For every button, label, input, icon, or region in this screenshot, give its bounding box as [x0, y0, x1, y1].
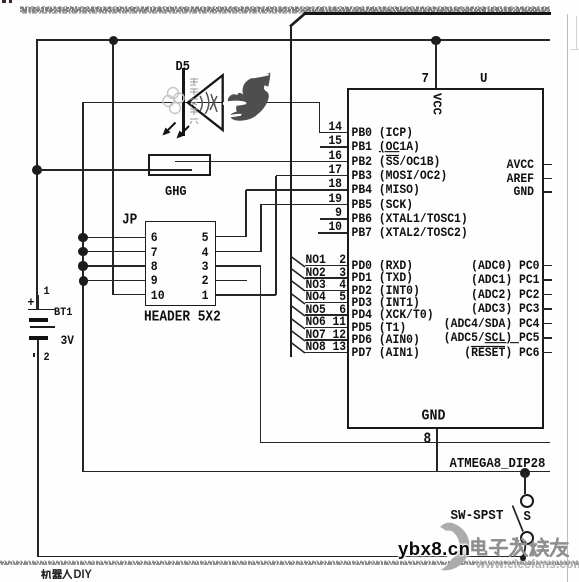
- pin label PC6: [0, 347, 540, 360]
- net flag NO4 underline / PD stub: [305, 302, 347, 304]
- pin number 4 for NO3: [0, 279, 346, 292]
- pin number 4 header right: [0, 246, 209, 261]
- wire vertical x=113 from top rail to header pin10: [112, 40, 114, 295]
- pin number 2 for NO1: [0, 254, 346, 267]
- pin label PD0: [352, 260, 414, 273]
- junction dot top rail x=113: [109, 36, 118, 45]
- label GHG: [165, 184, 187, 200]
- junction dot switch-bottom rail: [520, 555, 526, 561]
- net flag NO8 diagonal: [289, 341, 309, 355]
- pin stub PC3 right: [542, 308, 552, 310]
- pin label PD1: [352, 272, 414, 285]
- pin label PB0: [352, 127, 414, 140]
- wire header pin2 stub: [216, 280, 248, 282]
- wire pin9 stub PB6: [320, 218, 347, 220]
- net flag NO5 diagonal: [289, 304, 309, 318]
- pin label PB1: [352, 141, 420, 154]
- net flag NO3 underline / PD stub: [305, 290, 347, 292]
- pin label PB4: [352, 184, 420, 197]
- junction dot row9: [79, 276, 88, 285]
- wire switch upper lead: [524, 473, 526, 494]
- pin stub AVCC right: [542, 164, 552, 166]
- pin label PD3: [352, 297, 420, 310]
- pin label PB7: [352, 227, 468, 240]
- LED D5 emission arrow 2: [172, 122, 194, 144]
- pin label AVCC: [0, 159, 534, 172]
- caption jiqiren DIY (robot DIY): [41, 569, 51, 579]
- pin number 19: [0, 193, 342, 206]
- pin number 3 header right: [0, 260, 209, 275]
- wire VCC top rail y=40: [36, 39, 550, 41]
- pin label PB2: [352, 156, 441, 169]
- junction dot top rail VCC pin7: [431, 36, 440, 45]
- switch SW-SPST junction dot: [520, 468, 530, 478]
- label battery pin 1: [44, 286, 50, 298]
- page bottom speckled border: [0, 558, 579, 568]
- pin label PC3: [0, 303, 540, 316]
- net flag NO7 diagonal: [289, 329, 309, 343]
- pin number 18: [0, 178, 342, 191]
- wire header pin3 row: [216, 265, 262, 267]
- pin stub PC1 right: [542, 279, 552, 281]
- net bus NO thick vertical x=291: [290, 25, 293, 357]
- pin label PC5: [0, 332, 540, 345]
- connector JP header body rectangle: [145, 221, 216, 307]
- watermark swirl crescent: [436, 522, 476, 576]
- resistor GHG body rectangle: [148, 154, 211, 177]
- net label NO8: [306, 341, 326, 354]
- pin number 7 VCC: [422, 71, 429, 87]
- pin number 9 header left: [151, 274, 158, 289]
- wire header pin1 row: [216, 294, 277, 296]
- pin stub PC4 right: [542, 323, 552, 325]
- wire LED anode row y=102.6: [83, 102, 320, 104]
- pin number 2 header right: [0, 274, 209, 289]
- watermark strokes inside LED triangle: [196, 88, 222, 118]
- switch SW-SPST lever: [509, 503, 527, 534]
- pin label PB6: [352, 213, 468, 226]
- wire bottom rail y=556.8: [37, 556, 523, 558]
- wire pin18 stub PB4: [246, 189, 347, 191]
- pin number 14: [0, 121, 342, 134]
- wire pin17 drop to header pin1: [275, 176, 277, 295]
- watermark text www.elecfans.com: [476, 557, 579, 571]
- pin label PC1: [0, 274, 540, 287]
- battery BT1 plate 4 (short thick): [29, 336, 49, 340]
- pin label PD5: [352, 322, 407, 335]
- net flag NO6 underline / PD stub: [305, 327, 347, 329]
- wire VCC pin7 drop: [435, 40, 437, 88]
- wire left rail upper (x=37): [36, 40, 38, 310]
- battery BT1 plate 2 (short thick): [29, 318, 49, 322]
- pin number 11 for NO6: [0, 316, 346, 329]
- pin number 1 header right: [0, 289, 209, 304]
- junction dot row8: [78, 261, 87, 270]
- pin label PB5: [352, 199, 414, 212]
- net label NO6: [306, 316, 326, 329]
- pin label PC0: [0, 260, 540, 273]
- net flag NO3 diagonal: [289, 279, 309, 293]
- wire GND pin8 drop: [436, 427, 438, 472]
- label BT1: [54, 307, 72, 319]
- scan mark top-left 2: [9, 0, 13, 3]
- scan mark top-left 1: [2, 0, 6, 3]
- label GND bottom: [422, 407, 446, 424]
- net label NO3: [306, 279, 326, 292]
- pin label PD2: [352, 285, 420, 298]
- wire resistor left lead: [37, 169, 192, 171]
- wire pin10 stub PB7: [318, 232, 347, 234]
- label S: [524, 509, 531, 525]
- pin label AREF: [0, 173, 534, 186]
- pin number 3 for NO2: [0, 267, 346, 280]
- wire left rail lower (battery to bottom): [37, 338, 39, 557]
- pin number 10: [0, 221, 342, 234]
- pin stub PC0 right: [542, 265, 552, 267]
- net flag NO7 underline / PD stub: [305, 339, 347, 341]
- pin stub AREF right: [542, 178, 552, 180]
- pin number 8 GND: [424, 430, 432, 447]
- net top thick line y=13.8: [304, 12, 551, 15]
- switch SW-SPST bottom contact circle: [520, 531, 534, 545]
- label battery pin 2: [44, 352, 50, 364]
- wire vertical x=83 (LED return bus): [82, 102, 84, 472]
- pin label PD7: [352, 347, 420, 360]
- watermark text ybx8.cn: [398, 538, 470, 560]
- page right faint border line: [567, 14, 568, 582]
- pin number 9: [0, 207, 342, 220]
- label battery plus: [28, 296, 35, 311]
- battery BT1 plate 3 (long): [30, 326, 55, 328]
- pin number 12 for NO7: [0, 329, 346, 342]
- junction dot resistor-left rail: [32, 165, 42, 175]
- pin stub PC6 right: [542, 352, 552, 354]
- wire header pin4 row: [216, 251, 262, 253]
- label JP: [122, 211, 137, 228]
- pin stub PC2 right: [542, 294, 552, 296]
- pin label PD6: [352, 334, 420, 347]
- pin number 6 header left: [151, 231, 158, 246]
- pin number 13 for NO8: [0, 341, 346, 354]
- wire pin15 stub PB1: [320, 146, 347, 148]
- net label NO5: [306, 304, 326, 317]
- net label NO7: [306, 329, 326, 342]
- net flag NO6 diagonal: [289, 317, 309, 331]
- wire net row y=442.6: [261, 442, 550, 444]
- wire battery top lead: [37, 295, 39, 310]
- watermark text dianzifashaoyou (elecfans chinese): [468, 537, 489, 558]
- label U: [480, 71, 487, 87]
- pin number 8 header left: [151, 260, 158, 275]
- net flag NO8 underline / PD stub: [305, 352, 347, 354]
- LED D5 cathode bar: [182, 68, 185, 136]
- wire header pin10 row: [113, 294, 145, 296]
- op IC U ATmega8 body rectangle: [347, 88, 545, 429]
- label 3V: [61, 335, 74, 348]
- wire bus bend diagonal to top thick line: [288, 10, 314, 30]
- label ATMEGA8_DIP28: [450, 456, 546, 472]
- page corner faint lines top-right: [576, 16, 577, 49]
- LED D5 emission arrow 1: [159, 118, 181, 140]
- junction dot row6: [78, 233, 87, 242]
- wire header pin9 row: [83, 280, 145, 282]
- pin label PD4: [352, 309, 434, 322]
- label SW-SPST: [451, 508, 504, 524]
- pin label PC2: [0, 289, 540, 302]
- page top speckled border: [0, 0, 579, 20]
- wire resistor right lead to pin16 PB2: [175, 161, 347, 163]
- net flag NO1 diagonal: [289, 255, 309, 269]
- wire pin14 stub PB0: [320, 132, 348, 134]
- wire ground row y=471.4: [83, 471, 550, 473]
- net flag NO1 underline / PD stub: [305, 265, 347, 267]
- wire pin19 drop to header pin4: [260, 204, 262, 251]
- net flag NO2 underline / PD stub: [305, 277, 347, 279]
- pin number 7 header left: [151, 246, 158, 261]
- junction dot row7: [78, 247, 87, 256]
- net label NO1: [306, 254, 326, 267]
- label HEADER 5X2: [144, 308, 221, 325]
- wire LED row drop to pin14: [319, 103, 321, 133]
- wire pin18 drop to header pin5: [245, 190, 247, 237]
- wire header pin7 row: [83, 251, 145, 253]
- watermark small vertical text near diode: [188, 77, 201, 125]
- pin number 5 header right: [0, 231, 209, 246]
- wire header pin8 row: [83, 265, 145, 267]
- wire header pin5 row: [216, 236, 247, 238]
- wire pin17 stub PB3: [276, 175, 347, 177]
- wire header pin3 drop x=260.5: [260, 266, 262, 443]
- label battery minus: [33, 353, 35, 358]
- pin number 5 for NO4: [0, 291, 346, 304]
- pin label PC4: [0, 318, 540, 331]
- pin number 17: [0, 164, 342, 177]
- pin number 10 header left: [151, 289, 165, 304]
- label VCC vertical: [430, 93, 444, 115]
- pin number 6 for NO5: [0, 304, 346, 317]
- label D5: [176, 59, 190, 75]
- net label NO4: [306, 291, 326, 304]
- wire header pin6 row: [83, 237, 145, 239]
- net label NO2: [306, 267, 326, 280]
- LED D5 triangle: [184, 72, 228, 134]
- watermark flame logo (elecfans) near diode: [223, 68, 273, 125]
- wire switch lower lead: [518, 540, 530, 560]
- pin stub GND right: [542, 191, 552, 193]
- switch SW-SPST top contact circle: [520, 494, 534, 508]
- watermark flower outline near diode: [162, 84, 188, 118]
- net flag NO5 underline / PD stub: [305, 314, 347, 316]
- wire pin19 stub PB5: [261, 204, 347, 206]
- pin label GND: [0, 186, 534, 199]
- net flag NO2 diagonal: [289, 267, 309, 281]
- pin stub PC5 right: [542, 337, 552, 339]
- battery BT1 plate 1 (long): [28, 309, 55, 311]
- pin label PB3: [352, 170, 448, 183]
- net flag NO4 diagonal: [289, 292, 309, 306]
- pin number 15: [0, 135, 342, 148]
- pin number 16: [0, 150, 342, 163]
